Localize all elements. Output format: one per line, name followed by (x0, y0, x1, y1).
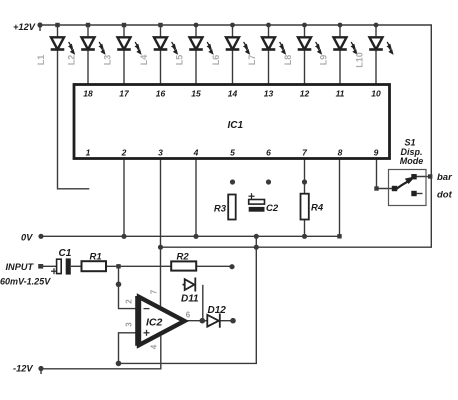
svg-text:0V: 0V (21, 233, 33, 243)
svg-text:R1: R1 (90, 252, 102, 263)
svg-text:L4: L4 (139, 55, 149, 66)
svg-text:4: 4 (150, 344, 159, 349)
svg-text:6: 6 (266, 148, 271, 158)
svg-text:-12V: -12V (13, 364, 33, 374)
svg-text:L5: L5 (174, 55, 184, 66)
svg-text:11: 11 (336, 89, 345, 99)
svg-text:7: 7 (150, 289, 159, 294)
svg-text:C2: C2 (266, 203, 279, 214)
svg-text:IC1: IC1 (228, 120, 244, 131)
svg-text:L9: L9 (318, 55, 328, 66)
svg-text:S1: S1 (404, 138, 415, 148)
svg-text:D11: D11 (181, 294, 199, 305)
svg-text:1: 1 (86, 148, 91, 158)
svg-text:R3: R3 (214, 204, 227, 215)
svg-text:dot: dot (437, 190, 453, 201)
svg-text:16: 16 (156, 89, 166, 99)
svg-text:IC2: IC2 (146, 317, 163, 329)
svg-text:3: 3 (158, 148, 163, 158)
svg-text:12: 12 (300, 89, 310, 99)
svg-text:18: 18 (83, 89, 93, 99)
svg-text:L1: L1 (36, 55, 46, 66)
svg-text:8: 8 (338, 148, 343, 158)
svg-text:5: 5 (230, 148, 235, 158)
svg-text:L6: L6 (211, 55, 221, 66)
svg-text:L10: L10 (354, 52, 364, 68)
svg-text:4: 4 (193, 148, 199, 158)
svg-text:9: 9 (374, 148, 379, 158)
svg-text:R2: R2 (177, 252, 190, 263)
svg-text:2: 2 (125, 299, 134, 304)
svg-text:+12V: +12V (13, 22, 36, 32)
svg-text:7: 7 (302, 148, 308, 158)
svg-text:L3: L3 (102, 55, 112, 66)
svg-text:60mV-1.25V: 60mV-1.25V (0, 277, 51, 287)
svg-text:R4: R4 (311, 203, 324, 214)
svg-text:L8: L8 (283, 55, 293, 66)
svg-text:L2: L2 (66, 55, 76, 66)
svg-text:2: 2 (121, 148, 127, 158)
svg-text:17: 17 (119, 89, 130, 99)
svg-text:14: 14 (228, 89, 238, 99)
svg-text:6: 6 (186, 311, 191, 320)
svg-text:D12: D12 (208, 305, 227, 316)
svg-text:C1: C1 (59, 248, 72, 259)
svg-text:Mode: Mode (400, 156, 424, 166)
svg-text:13: 13 (264, 89, 274, 99)
svg-text:3: 3 (125, 322, 134, 327)
svg-text:10: 10 (371, 89, 381, 99)
svg-text:bar: bar (437, 172, 453, 183)
svg-text:15: 15 (191, 89, 201, 99)
svg-text:INPUT: INPUT (6, 262, 35, 272)
svg-text:L7: L7 (247, 55, 257, 66)
